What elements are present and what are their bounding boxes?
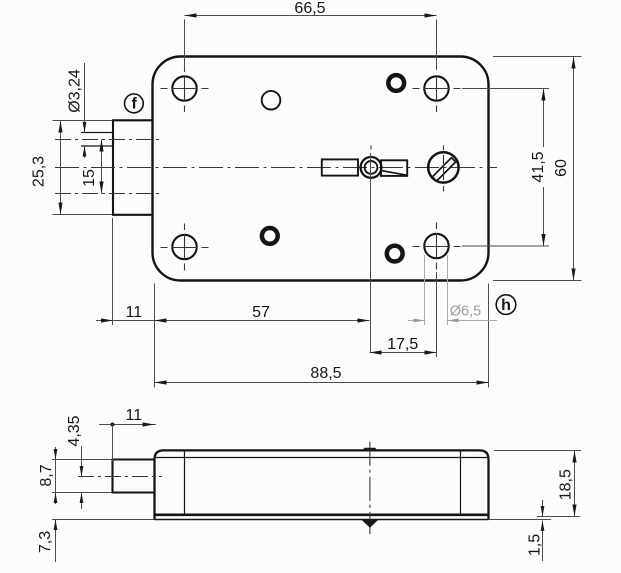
svg-text:18,5: 18,5 bbox=[558, 469, 575, 500]
side view inner top line bbox=[156, 457, 488, 459]
main horizontal center line bbox=[55, 167, 497, 169]
svg-text:60: 60 bbox=[553, 159, 570, 177]
hole top-right Ø6,5 bbox=[424, 76, 448, 100]
screw vertical center marks bbox=[443, 145, 445, 191]
side view bolt bbox=[113, 460, 155, 493]
bolt bottom edge extension (side) bbox=[52, 492, 112, 494]
pin center line upper bbox=[55, 139, 162, 141]
svg-text:11: 11 bbox=[125, 407, 142, 424]
crosshair bottom-right hole bbox=[413, 223, 461, 270]
svg-text:11: 11 bbox=[125, 304, 142, 321]
hole bottom-left Ø6,5 bbox=[172, 235, 196, 259]
hole bottom-right Ø6,5 bbox=[424, 234, 448, 258]
bolt edge extension line (below plan) bbox=[112, 218, 114, 325]
key hub outer circle bbox=[361, 157, 382, 178]
bolt center line (side) bbox=[78, 476, 162, 478]
dimension 41,5 bbox=[462, 88, 549, 90]
crosshair bottom-left hole bbox=[161, 224, 209, 271]
side view base plate thick line bbox=[154, 513, 490, 516]
label circle f bbox=[124, 94, 143, 113]
svg-text:66,5: 66,5 bbox=[294, 0, 325, 17]
hole top-left Ø6,5 bbox=[172, 76, 196, 100]
dimension 11 (plan) and 57 shared line bbox=[96, 320, 370, 322]
key hub inner circle bbox=[365, 161, 378, 174]
svg-text:41,5: 41,5 bbox=[530, 151, 547, 182]
body left edge extension line (below plan) bbox=[154, 284, 156, 388]
side view vertical center line bbox=[369, 442, 371, 534]
side view inner left vertical bbox=[184, 450, 186, 514]
bolt top edge extension (side) bbox=[52, 459, 112, 461]
bold circle bottom-right bbox=[387, 246, 403, 262]
screw slot bbox=[432, 158, 455, 181]
bold circle bottom-center bbox=[262, 228, 278, 244]
svg-text:f: f bbox=[132, 96, 138, 113]
lock body outline (plan view) bbox=[153, 57, 489, 281]
body right edge extension line (below plan) bbox=[488, 284, 490, 388]
key hub vertical extension line bbox=[370, 153, 372, 353]
plain circle top-center bbox=[262, 91, 281, 110]
dimension 60 bbox=[493, 56, 582, 58]
svg-text:8,7: 8,7 bbox=[38, 464, 55, 486]
svg-text:17,5: 17,5 bbox=[387, 336, 418, 353]
dimension 15 bbox=[101, 140, 103, 194]
svg-text:88,5: 88,5 bbox=[310, 365, 341, 382]
side view bottom edge / extension line bbox=[52, 519, 551, 521]
pin Ø3,24 outline bbox=[81, 133, 113, 147]
dimension 1,5 bbox=[542, 500, 544, 517]
svg-text:57: 57 bbox=[252, 304, 270, 321]
screw head circle bbox=[428, 152, 458, 182]
side view body outline bbox=[155, 450, 489, 519]
bolt (plan view) bbox=[113, 120, 153, 215]
key bit right bar bbox=[381, 160, 407, 176]
crosshair top-right hole bbox=[413, 76, 461, 112]
key bit left bar bbox=[322, 159, 358, 175]
dimension 17,5 bbox=[436, 272, 438, 357]
svg-text:25,3: 25,3 bbox=[31, 156, 48, 187]
key hub vertical center dash bbox=[370, 146, 372, 150]
svg-text:Ø6,5: Ø6,5 bbox=[450, 304, 481, 320]
dimension 57 bbox=[155, 318, 167, 322]
dimension 66,5 bbox=[185, 15, 437, 17]
label circle h bbox=[496, 295, 516, 315]
dimension 25,3 bbox=[53, 120, 113, 122]
bold circle top-right bbox=[388, 75, 404, 91]
pin center line lower bbox=[55, 193, 162, 195]
svg-text:15: 15 bbox=[81, 169, 98, 187]
side view bottom pin triangle bbox=[362, 520, 379, 528]
svg-text:Ø3,24: Ø3,24 bbox=[67, 69, 84, 113]
svg-text:4,35: 4,35 bbox=[66, 415, 83, 446]
dimension 88,5 bbox=[155, 382, 489, 384]
side view inner right vertical bbox=[460, 450, 462, 514]
svg-text:7,3: 7,3 bbox=[37, 531, 54, 553]
key bit wedge line bbox=[382, 171, 407, 176]
dimension 18,5 bbox=[494, 450, 581, 452]
svg-text:h: h bbox=[501, 297, 511, 314]
svg-text:1,5: 1,5 bbox=[527, 534, 544, 556]
crosshair top-left hole bbox=[161, 66, 209, 112]
side view top tab bbox=[362, 448, 377, 451]
dimension Ø6,5 (grey) bbox=[424, 255, 426, 325]
